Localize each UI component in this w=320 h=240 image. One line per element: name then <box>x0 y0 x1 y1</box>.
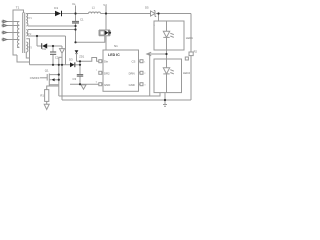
svg-text:D3: D3 <box>69 57 73 61</box>
svg-text:TP2: TP2 <box>27 32 32 36</box>
svg-text:GND: GND <box>129 83 135 87</box>
svg-text:D1: D1 <box>54 6 58 10</box>
svg-text:Q1: Q1 <box>45 69 49 73</box>
svg-text:CS: CS <box>132 60 136 64</box>
svg-text:LED IC: LED IC <box>108 53 120 57</box>
svg-text:LED1: LED1 <box>186 36 193 40</box>
svg-text:ZD1: ZD1 <box>79 54 84 58</box>
svg-text:DRN: DRN <box>129 72 135 76</box>
svg-text:C3: C3 <box>73 77 77 81</box>
svg-text:Vo: Vo <box>72 2 76 6</box>
svg-text:C2: C2 <box>55 56 59 60</box>
svg-text:TP3: TP3 <box>27 46 32 50</box>
svg-text:T1: T1 <box>16 5 20 9</box>
svg-text:N1: N1 <box>114 44 118 48</box>
svg-text:TP1: TP1 <box>27 16 32 20</box>
svg-text:D2: D2 <box>43 47 47 51</box>
svg-text:R2: R2 <box>194 49 198 53</box>
svg-text:Din: Din <box>104 60 109 64</box>
svg-text:LED2: LED2 <box>183 71 190 75</box>
svg-text:L1: L1 <box>92 6 96 10</box>
svg-text:Vd: Vd <box>103 3 107 7</box>
svg-text:D5: D5 <box>145 6 149 10</box>
svg-text:C1: C1 <box>80 18 84 22</box>
svg-text:DR2: DR2 <box>104 72 110 76</box>
svg-text:ON/OFF: ON/OFF <box>30 76 40 80</box>
svg-text:R1: R1 <box>40 93 44 97</box>
svg-text:GND: GND <box>104 83 110 87</box>
